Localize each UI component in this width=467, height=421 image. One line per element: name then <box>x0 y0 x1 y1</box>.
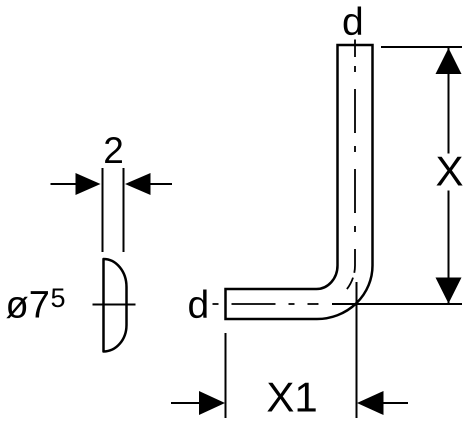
svg-text:X: X <box>435 148 463 195</box>
dimension arrow right (2) <box>125 173 172 195</box>
X dimension line upper part <box>448 48 450 154</box>
extension line right (2) <box>123 168 125 252</box>
pipe outline (L bend) <box>226 45 373 319</box>
extension line left (2) <box>102 168 104 252</box>
centerline dash-dot bend arc segment <box>317 266 356 305</box>
X dimension arrowhead down <box>436 278 462 304</box>
centerline dash-dot horizontal segment <box>213 303 317 305</box>
svg-text:d: d <box>342 1 364 44</box>
profile cross-section outline <box>104 259 127 352</box>
X1 extension line right <box>356 282 358 418</box>
svg-text:2: 2 <box>103 130 124 171</box>
X1 extension line left <box>225 333 227 418</box>
X1 arrow right <box>357 391 408 415</box>
svg-text:ø7: ø7 <box>6 285 50 327</box>
dimension arrow left (2) <box>51 173 101 195</box>
svg-text:X1: X1 <box>266 374 317 421</box>
X dimension bottom reference line <box>332 303 462 305</box>
X dimension arrowhead up <box>436 48 462 74</box>
svg-text:5: 5 <box>51 283 66 313</box>
svg-text:d: d <box>188 284 210 327</box>
X dimension line lower part <box>448 191 450 304</box>
centerline tick through profile <box>93 304 136 306</box>
X1 arrow left <box>171 391 225 415</box>
X dimension top reference line <box>381 46 462 48</box>
centerline top tick <box>354 40 356 58</box>
centerline dash-dot vertical segment <box>354 57 356 266</box>
